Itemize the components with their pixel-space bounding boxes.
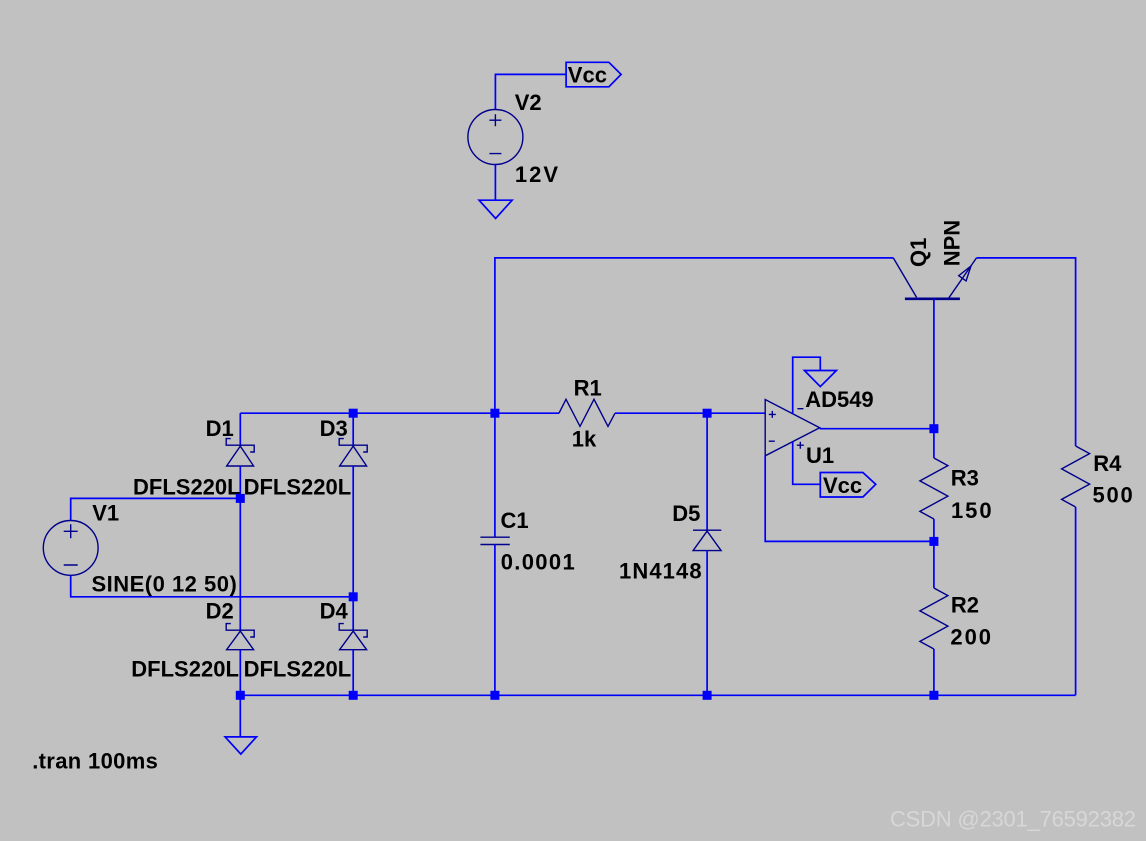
node bottom rail D4 — [349, 691, 358, 700]
wire D1 top lead — [239, 413, 241, 445]
node bottom rail R2 — [929, 691, 938, 700]
transistor Q1 — [893, 258, 976, 299]
wire R3 to R2 — [933, 519, 935, 588]
svg-text:1k: 1k — [572, 427, 597, 452]
wire D2 anode to bottom rail — [239, 650, 241, 696]
resistor R4 — [1062, 446, 1090, 507]
flag Vcc (op-amp supply) — [820, 473, 875, 499]
svg-text:Vcc: Vcc — [568, 62, 607, 87]
svg-text:U1: U1 — [806, 443, 834, 468]
wire top rail (C1 node up and across to Q1 collector) — [495, 258, 893, 413]
svg-text:1N4148: 1N4148 — [619, 558, 702, 583]
wire D3 top lead — [352, 413, 354, 445]
wire V1 minus to node B — [71, 575, 354, 597]
flag Vcc (net V2 output) — [566, 62, 621, 87]
wire op-amp V- power pin hook — [793, 357, 821, 413]
resistor R1 — [559, 399, 615, 426]
wire D4 anode to bottom rail — [352, 650, 354, 696]
node rail-D3 — [349, 409, 358, 418]
wire Q1 emitter across and down to R4 — [977, 258, 1076, 446]
wire V1 plus to node A — [71, 498, 241, 520]
voltage source V2 — [468, 110, 523, 165]
node R3-R2 feedback — [929, 537, 938, 546]
capacitor C1 — [480, 537, 509, 544]
svg-text:D2: D2 — [206, 598, 234, 623]
wire C1 top lead — [494, 413, 496, 537]
wire node to R3 — [933, 429, 935, 458]
svg-text:DFLS220L: DFLS220L — [133, 475, 241, 500]
wire main rail left segment (bridge top to R1) — [240, 412, 559, 414]
op-amp U1 — [765, 400, 820, 456]
node bottom rail C1 — [490, 691, 499, 700]
node rail-C1 — [490, 409, 499, 418]
svg-text:DFLS220L: DFLS220L — [131, 657, 239, 682]
wire ground lead bottom — [239, 695, 241, 737]
node op-amp output — [929, 424, 938, 433]
svg-text:D4: D4 — [320, 598, 349, 623]
svg-text:C1: C1 — [501, 508, 529, 533]
wire V2 bottom lead — [494, 165, 496, 201]
svg-text:Vcc: Vcc — [823, 473, 862, 498]
voltage source V1 — [43, 521, 98, 576]
resistor R2 — [920, 588, 948, 649]
svg-text:Q1: Q1 — [906, 238, 931, 267]
svg-text:200: 200 — [950, 625, 991, 650]
ground flag at op-amp V- — [804, 371, 836, 387]
wire Q1 base down to op-amp output node — [933, 299, 935, 429]
ground at bottom rail — [225, 737, 256, 754]
diode D3 — [339, 439, 367, 466]
svg-text:0.0001: 0.0001 — [501, 550, 575, 575]
svg-text:12V: 12V — [515, 162, 559, 187]
svg-text:D3: D3 — [320, 416, 348, 441]
wire R2 bottom to rail — [933, 649, 935, 695]
node bottom rail D5 — [703, 691, 712, 700]
wire op-amp V+ power pin to Vcc flag — [793, 442, 821, 485]
diode D4 — [339, 624, 367, 650]
wire feedback from inverting input down and right — [765, 456, 934, 542]
diode D5 — [693, 530, 721, 550]
svg-text:V1: V1 — [92, 500, 119, 525]
wire left bridge leg node A to D2 — [239, 498, 241, 630]
svg-text:500: 500 — [1093, 483, 1133, 508]
node bottom rail D2 — [236, 691, 245, 700]
wire D4 top lead from node B — [352, 597, 354, 630]
svg-text:.tran 100ms: .tran 100ms — [32, 749, 158, 774]
svg-text:150: 150 — [951, 498, 992, 523]
svg-text:R3: R3 — [951, 466, 979, 491]
wire D3 anode down to node B — [352, 466, 354, 597]
svg-text:R2: R2 — [951, 593, 979, 618]
svg-text:NPN: NPN — [940, 220, 965, 266]
wire D5 top lead — [706, 413, 708, 530]
node rail-D5 — [703, 409, 712, 418]
node A (V1+ / D1 / D2) — [236, 494, 245, 503]
svg-text:DFLS220L: DFLS220L — [244, 657, 352, 682]
svg-text:AD549: AD549 — [805, 387, 873, 412]
ground under V2 — [479, 200, 512, 218]
resistor R3 — [920, 458, 948, 519]
svg-text:V2: V2 — [515, 90, 542, 115]
wire D1 anode to node A — [239, 466, 241, 498]
wire C1 bottom lead — [494, 545, 496, 696]
diode D2 — [226, 624, 254, 650]
wire main rail right segment (R1 to op-amp input) — [615, 412, 765, 414]
svg-text:D5: D5 — [672, 501, 700, 526]
wire bottom rail — [240, 694, 1075, 696]
svg-text:R1: R1 — [574, 375, 602, 400]
svg-text:SINE(0 12 50): SINE(0 12 50) — [92, 572, 237, 597]
diode D1 — [226, 439, 254, 466]
wire V2 top lead to Vcc flag — [495, 74, 566, 109]
node junction dots — [236, 409, 939, 700]
svg-text:DFLS220L: DFLS220L — [244, 475, 352, 500]
svg-text:R4: R4 — [1093, 451, 1122, 476]
node B (V1- / D3 / D4) — [349, 592, 358, 601]
svg-text:D1: D1 — [206, 416, 234, 441]
wire D5 bottom lead — [706, 551, 708, 696]
wire R4 bottom to rail — [1075, 507, 1077, 695]
wire op-amp output to node — [820, 428, 934, 430]
svg-text:CSDN @2301_76592382: CSDN @2301_76592382 — [890, 806, 1136, 831]
